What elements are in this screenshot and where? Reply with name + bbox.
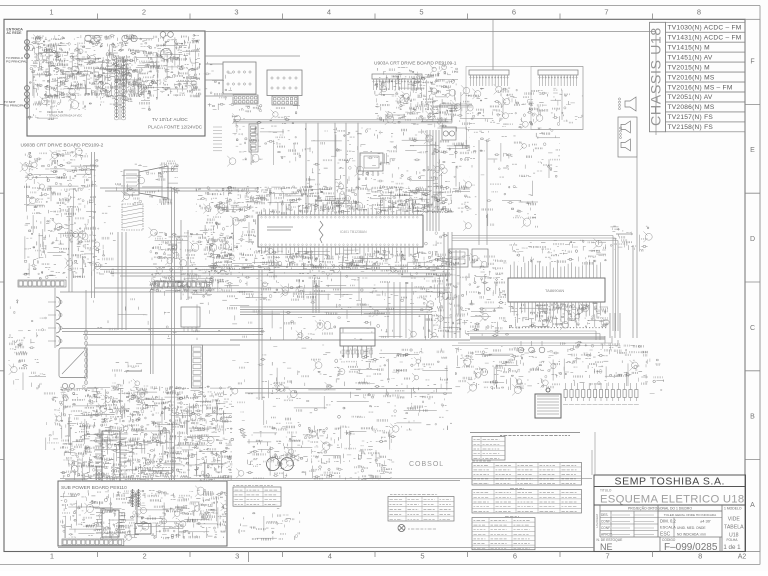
svg-text:COBSOL: COBSOL [409,461,444,468]
svg-text:TV2015(N) M: TV2015(N) M [668,64,710,71]
svg-text:DES.: DES. [601,513,609,517]
svg-text:ESCALA: ESCALA [660,525,676,530]
svg-text:IC401 TB1238AN: IC401 TB1238AN [340,230,367,234]
svg-text:TV2157(N) FS: TV2157(N) FS [668,114,714,121]
svg-text:REGIAO SUB: REGIAO SUB [47,110,63,114]
svg-text:7: 7 [606,551,610,560]
svg-text:1 de 1: 1 de 1 [723,544,741,551]
svg-text:FOLHA: FOLHA [727,538,739,542]
svg-text:TOLER.GERAL ONDE HO INDICADA: TOLER.GERAL ONDE HO INDICADA [664,513,717,517]
svg-text:TV2086(N) MS: TV2086(N) MS [668,104,715,111]
svg-text:CONF.: CONF. [601,519,611,523]
svg-text:8: 8 [697,8,701,17]
svg-text:TV 10'/14' AU/DC: TV 10'/14' AU/DC [152,117,188,122]
svg-text:LAVAGEM: LAVAGEM [595,513,599,528]
svg-text:D: D [750,236,755,243]
svg-text:±4 30’: ±4 30’ [700,519,711,524]
svg-text:TV2016(N) MS: TV2016(N) MS [668,74,715,81]
svg-text:PLACA FONTE 12/24VDC: PLACA FONTE 12/24VDC [148,125,203,130]
svg-text:TV1030(N) ACDC – FM: TV1030(N) ACDC – FM [668,25,742,32]
svg-text:SEMP TOSHIBA S.A.: SEMP TOSHIBA S.A. [615,475,726,487]
svg-text:2: 2 [143,551,147,560]
svg-text:1: 1 [50,551,54,560]
svg-text:7: 7 [604,8,608,17]
svg-text:P/U PRINCIPAL: P/U PRINCIPAL [4,104,26,108]
svg-text:2: 2 [142,8,146,17]
svg-text:F: F [750,59,754,66]
svg-text:VIDE: VIDE [728,517,741,523]
svg-text:CONF.: CONF. [601,526,611,530]
svg-text:AC REDE: AC REDE [7,31,23,35]
svg-text:SUB POWER BOARD PE9110: SUB POWER BOARD PE9110 [61,485,127,491]
svg-text:CHASSIS U18: CHASSIS U18 [649,27,665,126]
svg-text:6: 6 [512,8,516,17]
svg-text:* TENSAO ENTRADA 24 VDC: * TENSAO ENTRADA 24 VDC [47,114,82,118]
svg-text:TITULO: TITULO [600,489,612,493]
svg-text:UNID. MED. ONDE: UNID. MED. ONDE [677,526,706,530]
svg-text:TV1431(N) ACDC – FM: TV1431(N) ACDC – FM [668,35,742,42]
svg-text:ESC: ESC [660,532,671,538]
svg-text:NO INDICADA: mm: NO INDICADA: mm [677,533,706,537]
svg-text:TV2051(N) AV: TV2051(N) AV [668,94,713,101]
svg-text:ESQUEMA ELETRICO U18: ESQUEMA ELETRICO U18 [600,494,744,506]
svg-text:E: E [750,147,755,154]
svg-text:P/2 PRINCIPAL: P/2 PRINCIPAL [6,60,27,64]
svg-text:F–099/0285: F–099/0285 [664,542,718,553]
svg-text:C: C [750,325,755,332]
svg-text:TA8690AN: TA8690AN [545,288,564,293]
svg-text:5: 5 [420,551,424,560]
svg-text:PROJEÇÃO ORTOGONAL DO 1 D: PROJEÇÃO ORTOGONAL DO 1 DIEDRO [628,506,692,511]
svg-text:B: B [750,414,755,421]
svg-text:5: 5 [419,8,423,17]
svg-text:1: 1 [49,8,53,17]
svg-text:3: 3 [234,8,238,17]
svg-text:TV2016(N) MS – FM: TV2016(N) MS – FM [668,84,733,91]
svg-text:A: A [750,502,755,509]
svg-text:TV1415(N) M: TV1415(N) M [668,45,710,52]
svg-text:4: 4 [327,8,331,17]
svg-text:TV1451(N) AV: TV1451(N) AV [668,54,713,61]
svg-text:U903B CRT DRIVE BOARD PE910: U903B CRT DRIVE BOARD PE9109-2 [21,143,104,149]
svg-text:6: 6 [513,551,517,560]
svg-text:A2: A2 [738,553,747,560]
svg-text:1 MODELO: 1 MODELO [724,507,742,511]
svg-text:4: 4 [328,551,332,560]
svg-text:TABELA: TABELA [724,525,744,531]
svg-text:NE: NE [600,542,613,552]
svg-text:TV2158(N) FS: TV2158(N) FS [668,124,714,131]
svg-text:3: 3 [235,551,239,560]
